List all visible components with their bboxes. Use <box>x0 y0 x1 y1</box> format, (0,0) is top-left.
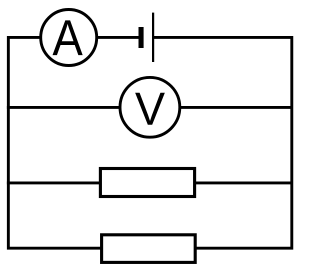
battery cell positive plate (long thin) <box>152 13 154 62</box>
voltmeter U2 circle <box>120 77 180 137</box>
ammeter label A <box>53 20 83 55</box>
resistor R2 box <box>102 235 196 263</box>
battery cell negative plate (short thick) <box>139 27 144 48</box>
ammeter U1 circle <box>41 10 97 66</box>
wire branch 3 (resistor R1 branch) <box>7 181 292 184</box>
wire outer loop (top, left, bottom, right sides with battery gap) <box>8 37 291 248</box>
resistor R1 box <box>100 169 194 197</box>
wire branch 2 (voltmeter branch) <box>7 106 292 109</box>
voltmeter label V <box>135 93 165 125</box>
